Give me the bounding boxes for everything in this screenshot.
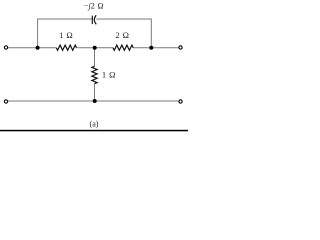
capacitor C1 curved plate — [94, 15, 96, 24]
svg-text:1 Ω: 1 Ω — [59, 30, 72, 40]
resistor R1 1ohm zigzag — [56, 45, 76, 50]
svg-text:−j2 Ω: −j2 Ω — [84, 1, 104, 10]
terminal bottom-right open circle — [179, 100, 182, 103]
svg-text:2 Ω: 2 Ω — [115, 30, 128, 40]
resistor R3 1ohm vertical zigzag — [92, 66, 97, 83]
wire middle-right segment — [133, 47, 178, 49]
resistor R2 2ohm zigzag — [113, 45, 133, 50]
wire vertical below R3 — [94, 84, 96, 101]
wire top branch left riser and run to capacitor — [38, 19, 92, 48]
node junction dot bottom — [93, 99, 97, 103]
svg-text:1 Ω: 1 Ω — [102, 69, 116, 79]
node junction dot right — [149, 46, 153, 50]
wire bottom rail — [8, 100, 178, 102]
wire top branch from capacitor to right riser — [96, 19, 151, 48]
wire vertical above R3 — [94, 48, 96, 67]
bottom rule — [0, 130, 188, 132]
terminal bottom-left open circle — [4, 100, 7, 103]
terminal top-left open circle — [4, 46, 7, 49]
terminal top-right open circle — [179, 46, 182, 49]
svg-text:(a): (a) — [90, 119, 99, 128]
node junction dot middle — [93, 46, 97, 50]
capacitor C1 left plate — [91, 16, 93, 25]
node junction dot left — [36, 46, 40, 50]
wire middle segment between R1 and R2 — [77, 47, 114, 49]
wire middle-left segment — [8, 47, 56, 49]
